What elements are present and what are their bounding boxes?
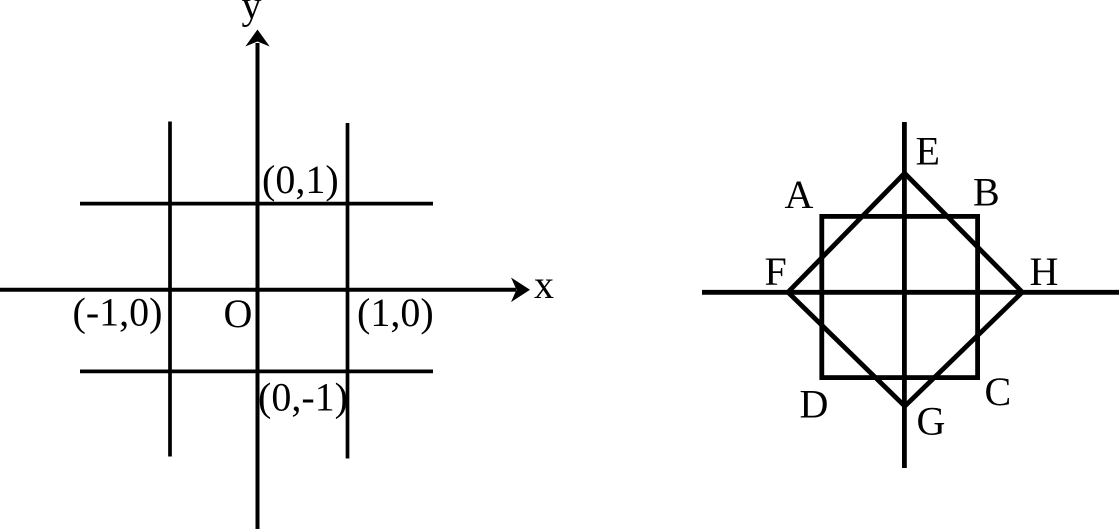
right figure: square ABCD overlapped by diamond EFGH on cross axes — [702, 122, 1119, 468]
vertical axis line — [902, 122, 907, 468]
horizontal line y=-1 — [80, 370, 433, 374]
svg-text:(0,1): (0,1) — [262, 157, 339, 202]
y-axis arrowhead — [245, 30, 269, 47]
svg-text:(-1,0): (-1,0) — [73, 290, 163, 335]
y-axis — [256, 43, 260, 529]
svg-text:B: B — [973, 169, 1000, 214]
diamond EHGF — [788, 173, 1022, 406]
vertical line x=-1 — [168, 122, 172, 457]
svg-text:D: D — [800, 382, 829, 427]
svg-text:C: C — [985, 369, 1012, 414]
svg-text:H: H — [1030, 249, 1059, 294]
horizontal axis line — [702, 290, 1119, 295]
svg-text:F: F — [765, 249, 787, 294]
vertical line x=+1 — [346, 123, 350, 459]
svg-text:E: E — [916, 128, 940, 173]
svg-text:y: y — [242, 0, 262, 28]
x-axis — [0, 288, 516, 292]
x-axis arrowhead — [511, 278, 530, 303]
left figure: coordinate axes with unit grid lines — [0, 43, 516, 529]
svg-text:x: x — [534, 262, 554, 307]
svg-text:(0,-1): (0,-1) — [258, 375, 348, 420]
svg-text:O: O — [224, 291, 253, 336]
horizontal line y=+1 — [80, 202, 433, 206]
svg-text:G: G — [917, 399, 946, 444]
svg-text:(1,0): (1,0) — [357, 290, 434, 335]
square ABCD — [822, 216, 978, 377]
svg-text:A: A — [785, 172, 814, 217]
